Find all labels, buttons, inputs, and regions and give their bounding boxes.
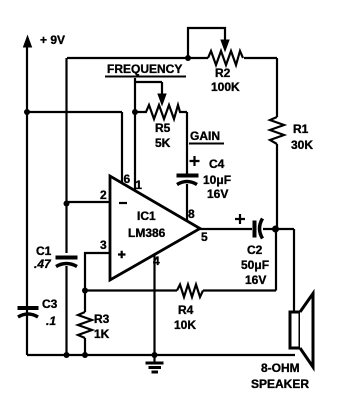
GAIN label [189, 129, 224, 144]
capacitor C1 [56, 258, 78, 356]
capacitor C4 plus sign [190, 156, 200, 166]
svg-text:IC1: IC1 [137, 209, 156, 223]
svg-text:2: 2 [100, 188, 107, 202]
svg-text:16V: 16V [245, 273, 266, 287]
svg-text:C2: C2 [247, 243, 263, 257]
wire: R4 left lead from pin3 node [85, 289, 177, 291]
R2 wiper arrow [221, 40, 229, 51]
svg-text:+ 9V: + 9V [40, 33, 65, 47]
svg-text:R3: R3 [94, 312, 110, 326]
op-amp IC1 LM386 [110, 176, 200, 280]
svg-text:SPEAKER: SPEAKER [251, 377, 309, 391]
svg-text:5: 5 [201, 230, 208, 244]
svg-text:30K: 30K [291, 138, 313, 152]
node: R3 ground junction [82, 352, 88, 358]
R5 wiper arrow [158, 94, 166, 105]
node: pin 2 junction [64, 201, 70, 207]
+9V supply arrow [24, 36, 32, 355]
svg-text:100K: 100K [211, 80, 240, 94]
wire: R2 wiper loop [188, 28, 225, 58]
svg-text:.47: .47 [34, 257, 52, 271]
capacitor C2 plus sign [235, 214, 245, 224]
svg-text:LM386: LM386 [128, 226, 166, 240]
node: C1 ground junction [64, 352, 70, 358]
plus sign input [118, 251, 126, 259]
wire: bottom ground rail [27, 354, 295, 356]
svg-text:R2: R2 [215, 66, 231, 80]
node: rail/pin6 junction [24, 109, 30, 115]
resistor R1 [270, 117, 284, 144]
svg-text:10K: 10K [174, 318, 196, 332]
wire: +9V rail branch to pin 6 [27, 111, 122, 113]
FREQUENCY label [105, 62, 186, 77]
resistor R2 [208, 51, 243, 65]
wire: R5 right drop to C4 [186, 112, 188, 174]
svg-text:50μF: 50μF [241, 258, 269, 272]
capacitor C3 [18, 308, 39, 317]
wire: C2 right to speaker [263, 229, 294, 312]
wire: pin 2 [67, 201, 111, 203]
svg-text:C4: C4 [209, 157, 225, 171]
wire: pin 6 drop [121, 112, 123, 182]
node: output junction [272, 226, 279, 233]
svg-text:16V: 16V [207, 187, 228, 201]
wire: pin 3 [85, 253, 110, 290]
node: R5 left junction [132, 109, 138, 115]
svg-text:8-OHM: 8-OHM [261, 361, 300, 375]
wire: left riser of feedback (pin2 to top rail) [65, 58, 67, 253]
svg-text:R4: R4 [178, 303, 194, 317]
svg-text:FREQUENCY: FREQUENCY [107, 62, 182, 76]
svg-text:R1: R1 [293, 122, 309, 136]
svg-text:8: 8 [188, 207, 195, 221]
wire: R4 right lead and riser to output [203, 229, 276, 291]
wire: right rail top [276, 58, 278, 117]
wire: frequency drop to R5 left / pin 1 [134, 78, 136, 190]
wire: R3 top lead [84, 290, 86, 312]
node: pin3/R3/R4 junction [82, 288, 88, 294]
wire: right rail bottom [276, 144, 278, 229]
svg-text:GAIN: GAIN [190, 129, 220, 143]
svg-text:5K: 5K [155, 136, 171, 150]
capacitor C2 [255, 219, 263, 239]
wire: R3 bottom lead [84, 338, 86, 355]
capacitor C4 [177, 176, 199, 222]
wire: pin 4 to ground [153, 255, 155, 355]
speaker [290, 294, 313, 368]
wire: top feedback rail [67, 57, 277, 59]
svg-text:1: 1 [135, 178, 142, 192]
svg-text:10μF: 10μF [203, 173, 231, 187]
svg-text:1K: 1K [94, 327, 110, 341]
svg-text:6: 6 [124, 172, 131, 186]
svg-text:R5: R5 [155, 121, 171, 135]
resistor R4 [177, 285, 203, 298]
resistor R5 [135, 105, 187, 119]
wire: R5 wiper branch [135, 82, 162, 95]
svg-text:.1: .1 [46, 314, 56, 328]
minus sign [119, 202, 127, 204]
svg-text:C1: C1 [36, 244, 52, 258]
svg-text:C3: C3 [42, 297, 58, 311]
node: R2 left junction [185, 55, 191, 61]
resistor R3 [78, 312, 92, 338]
ground symbol [146, 355, 164, 372]
node: ground junction [152, 352, 158, 358]
wire: pin 5 output [200, 228, 252, 230]
svg-text:3: 3 [100, 238, 107, 252]
